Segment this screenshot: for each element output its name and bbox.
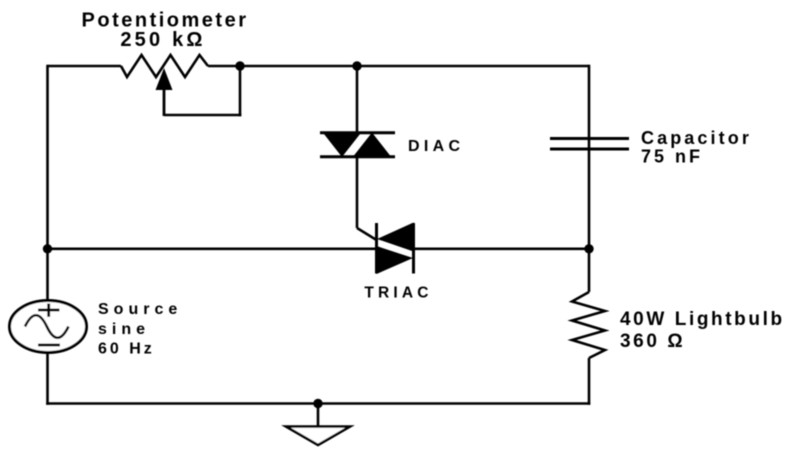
potentiometer R1 250k zigzag	[121, 55, 208, 77]
wire bottom rail	[46, 402, 590, 405]
svg-text:TRIAC: TRIAC	[364, 285, 432, 302]
svg-text:sine: sine	[98, 321, 150, 338]
svg-text:DIAC: DIAC	[408, 138, 464, 155]
wire right rail upper	[588, 65, 591, 292]
resistor lightbulb zigzag	[572, 292, 605, 358]
wire left rail upper	[46, 65, 49, 301]
node junction dot middle rail right	[584, 244, 593, 253]
node junction dot diac branch/top rail	[352, 61, 361, 70]
svg-text:360 Ω: 360 Ω	[620, 331, 685, 352]
svg-text:60 Hz: 60 Hz	[98, 341, 155, 358]
capacitor C1 plates	[550, 139, 629, 150]
diac D1	[320, 132, 395, 159]
wire middle rail right segment	[414, 248, 589, 251]
wire top rail left segment	[48, 65, 122, 68]
wire middle rail left segment	[48, 248, 377, 251]
svg-text:75 nF: 75 nF	[641, 147, 703, 167]
svg-text:Capacitor: Capacitor	[641, 128, 752, 148]
wire triac gate diagonal	[357, 228, 377, 240]
wire wiper horizontal	[164, 114, 241, 117]
wire diac branch lower	[356, 157, 359, 228]
triac Q1	[377, 223, 414, 275]
wire left rail lower	[46, 352, 49, 405]
node junction dot ground	[313, 399, 322, 408]
wire diac branch upper	[356, 66, 359, 132]
wire top rail right segment	[208, 65, 589, 68]
svg-text:Source: Source	[98, 301, 182, 318]
svg-text:250 kΩ: 250 kΩ	[120, 29, 205, 51]
source V1 sine 60Hz circle	[10, 301, 87, 353]
ground symbol	[286, 427, 350, 446]
wire wiper vertical up to top rail	[239, 66, 242, 116]
label Source sine 60 Hz	[98, 301, 182, 358]
wire right rail lower	[588, 358, 591, 405]
node junction dot wiper/top rail	[235, 61, 244, 70]
svg-text:40W Lightbulb: 40W Lightbulb	[620, 309, 785, 330]
node junction dot middle rail left	[43, 244, 52, 253]
potentiometer wiper arrow	[156, 68, 173, 116]
wire ground stub	[317, 404, 320, 427]
